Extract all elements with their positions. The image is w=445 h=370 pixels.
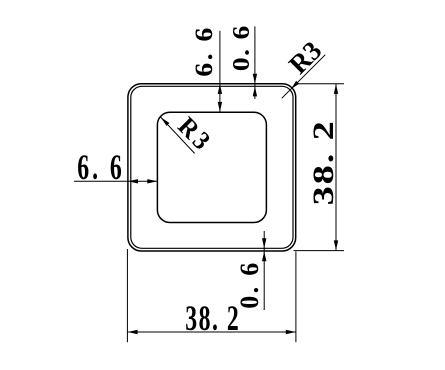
svg-text:R3: R3 <box>172 112 218 158</box>
svg-text:R3: R3 <box>283 35 328 80</box>
svg-text:0. 6: 0. 6 <box>235 263 264 309</box>
svg-text:6. 6: 6. 6 <box>189 28 217 77</box>
svg-text:38. 2: 38. 2 <box>185 298 239 338</box>
svg-text:38. 2: 38. 2 <box>307 121 340 205</box>
svg-text:0. 6: 0. 6 <box>228 26 255 71</box>
